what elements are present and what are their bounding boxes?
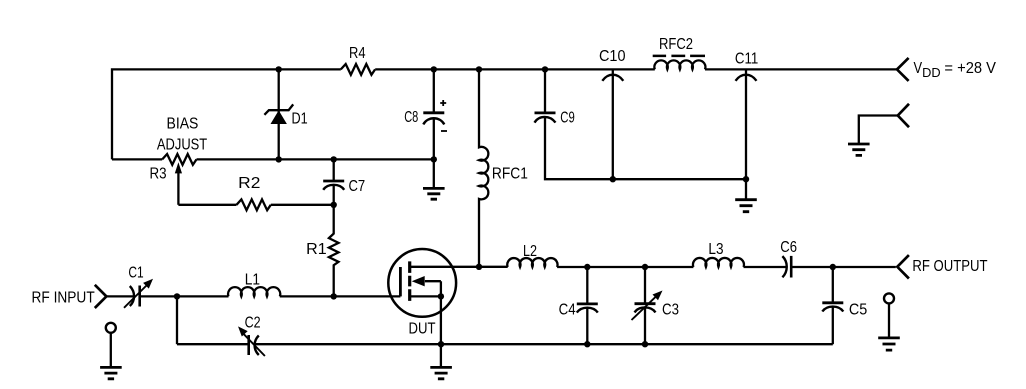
svg-text:RF INPUT: RF INPUT: [32, 290, 95, 307]
svg-text:RFC2: RFC2: [659, 36, 693, 53]
svg-text:D1: D1: [292, 111, 308, 128]
svg-text:C6: C6: [780, 239, 797, 256]
svg-text:C2: C2: [245, 315, 261, 332]
svg-text:RFC1: RFC1: [492, 166, 528, 183]
svg-text:C11: C11: [735, 51, 758, 68]
svg-text:R1: R1: [306, 241, 327, 258]
svg-text:RF OUTPUT: RF OUTPUT: [912, 258, 987, 275]
svg-text:C9: C9: [560, 110, 575, 127]
svg-text:R4: R4: [349, 45, 366, 62]
svg-text:R3: R3: [150, 165, 167, 182]
svg-text:L3: L3: [708, 241, 723, 258]
svg-text:= +28 V: = +28 V: [944, 60, 996, 77]
svg-text:C3: C3: [662, 302, 679, 319]
svg-text:ADJUST: ADJUST: [157, 136, 207, 153]
svg-text:BIAS: BIAS: [167, 115, 199, 132]
svg-text:C4: C4: [559, 302, 576, 319]
svg-text:C10: C10: [599, 48, 626, 65]
svg-text:R2: R2: [238, 175, 260, 192]
svg-text:C5: C5: [849, 301, 867, 318]
svg-text:L1: L1: [245, 271, 260, 288]
svg-text:L2: L2: [523, 243, 537, 260]
svg-text:DUT: DUT: [409, 321, 436, 338]
svg-text:C1: C1: [128, 265, 143, 282]
svg-text:C7: C7: [349, 178, 366, 195]
svg-text:C8: C8: [404, 109, 418, 126]
svg-text:DD: DD: [922, 66, 941, 80]
